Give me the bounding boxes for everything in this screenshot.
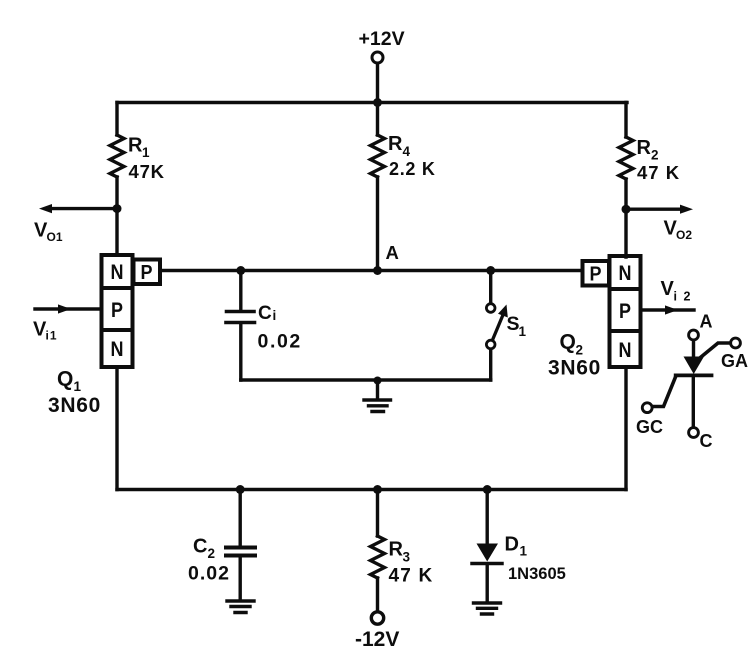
transistor Q1 label: [48, 368, 101, 418]
svg-text:1: 1: [520, 544, 528, 559]
svg-text:47K: 47K: [129, 161, 165, 182]
anode terminal A: [689, 330, 699, 340]
resistor R1: [110, 135, 124, 177]
output arrow Vo1: [39, 204, 117, 213]
svg-text:2: 2: [576, 343, 584, 358]
wire left vertical lower: [115, 367, 118, 490]
junction dot C1 top: [236, 266, 245, 275]
wire ground stem (center): [376, 380, 379, 398]
resistor R4 label: [388, 133, 436, 179]
wire top horizontal bus: [117, 101, 627, 104]
svg-text:i2: i2: [674, 290, 697, 304]
svg-text:-12V: -12V: [355, 628, 399, 651]
wire C2 leads: [238, 490, 241, 600]
svg-text:Q: Q: [57, 368, 73, 391]
-12V supply terminal: [371, 612, 383, 624]
gate-cathode lead GC: [642, 403, 652, 413]
wire bottom horizontal bus: [117, 488, 626, 491]
svg-text:0.02: 0.02: [258, 331, 302, 353]
junction dot C2: [236, 485, 245, 494]
wire R3 leads: [376, 490, 379, 612]
svg-text:C: C: [258, 303, 272, 324]
wire right vertical upper (R2 leads): [624, 103, 627, 258]
svg-text:3: 3: [403, 550, 411, 565]
junction dot +12V bus: [373, 98, 382, 107]
transistor Q2 label: [548, 331, 601, 380]
svg-text:O1: O1: [47, 230, 63, 244]
svg-text:N: N: [619, 262, 632, 285]
svg-text:P: P: [141, 262, 153, 284]
SCS package symbol (3N60 pinout): [642, 330, 740, 437]
ground (center): [364, 400, 391, 412]
wire bottom of C1/S1 loop: [241, 378, 491, 381]
+12V supply terminal: [372, 52, 383, 63]
diode D1: [472, 544, 502, 564]
ground (C2): [227, 601, 254, 613]
resistor R2: [619, 137, 633, 179]
ground (D1): [474, 603, 501, 614]
junction dot S1 top: [486, 266, 495, 275]
capacitor C1: [226, 312, 255, 323]
svg-text:C: C: [700, 431, 713, 451]
wire D1 leads: [486, 490, 489, 601]
svg-text:Q: Q: [560, 331, 576, 354]
resistor R4: [371, 135, 385, 177]
svg-text:1: 1: [519, 324, 527, 339]
svg-text:2: 2: [651, 148, 659, 163]
capacitor C1 label: [258, 303, 302, 353]
wire center horizontal (cross-coupling): [160, 269, 582, 272]
input arrow Vi1: [35, 304, 102, 313]
wire right vertical lower: [624, 367, 627, 490]
junction dot D1: [483, 485, 492, 494]
junction dot R3: [373, 485, 382, 494]
resistor R3: [371, 536, 385, 578]
svg-text:C: C: [193, 536, 207, 558]
diode D1 label: [505, 534, 566, 584]
svg-text:R: R: [637, 137, 652, 159]
svg-text:N: N: [111, 261, 124, 284]
svg-text:P: P: [619, 300, 631, 323]
svg-text:P: P: [590, 263, 602, 285]
svg-text:3N60: 3N60: [48, 394, 101, 417]
svg-text:i1: i1: [46, 329, 58, 343]
capacitor C2 label: [188, 536, 230, 585]
svg-text:A: A: [386, 242, 399, 263]
svg-text:N: N: [619, 339, 632, 362]
svg-text:1: 1: [142, 145, 150, 160]
svg-text:D: D: [505, 534, 519, 556]
node A: [373, 266, 382, 275]
svg-text:R: R: [388, 133, 403, 155]
wire +12V stem through R4 to node A: [376, 64, 379, 271]
svg-text:0.02: 0.02: [188, 563, 230, 585]
svg-text:1N3605: 1N3605: [508, 565, 566, 583]
svg-text:i: i: [273, 308, 277, 323]
output arrow Vo2: [626, 205, 693, 214]
switch S1 label: [507, 313, 527, 339]
capacitor C2: [226, 548, 255, 556]
gate-anode lead GA: [731, 338, 741, 348]
resistor R2 label: [637, 137, 681, 183]
resistor R1 label: [128, 135, 165, 183]
svg-text:GA: GA: [721, 351, 748, 371]
svg-text:O2: O2: [676, 228, 692, 242]
transistor Q2 (3N60 SCS block): [583, 256, 641, 367]
junction dot ground tap: [374, 377, 382, 385]
svg-text:2: 2: [208, 546, 216, 561]
svg-text:GC: GC: [636, 417, 663, 437]
svg-text:1: 1: [74, 379, 82, 394]
wire left vertical upper (R1 leads): [115, 103, 118, 256]
cathode lead C: [692, 377, 695, 427]
svg-text:4: 4: [403, 144, 411, 159]
svg-text:2.2 K: 2.2 K: [389, 159, 436, 179]
svg-text:3N60: 3N60: [548, 357, 601, 380]
transistor Q1 (3N60 SCS block): [102, 255, 161, 367]
svg-text:V: V: [661, 278, 675, 300]
svg-text:N: N: [111, 338, 124, 361]
svg-text:R: R: [128, 135, 143, 157]
junction dot Vo2: [622, 205, 631, 214]
resistor R3 label: [389, 539, 434, 587]
svg-text:R: R: [389, 539, 404, 561]
svg-text:+12V: +12V: [359, 28, 405, 50]
svg-text:47 K: 47 K: [389, 566, 434, 587]
junction dot Vo1: [113, 204, 122, 213]
input arrow Vi2: [641, 305, 694, 314]
cathode bar: [676, 373, 712, 377]
svg-text:P: P: [111, 299, 123, 322]
svg-text:A: A: [700, 312, 713, 332]
switch S1: [486, 271, 507, 381]
SCS triangle: [684, 357, 705, 375]
wire C1 leads: [239, 271, 242, 381]
svg-text:47 K: 47 K: [637, 162, 680, 183]
